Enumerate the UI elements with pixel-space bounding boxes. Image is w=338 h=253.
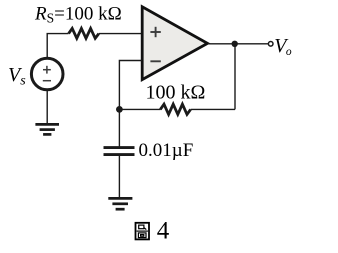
capacitor C1 plates [104, 148, 135, 155]
wire: riser up to output node [234, 44, 236, 110]
open terminal circle Vo [268, 42, 273, 47]
op-amp minus input symbol [150, 60, 160, 62]
resistor 100k feedback zigzag [160, 104, 190, 114]
svg-text:0.01µF: 0.01µF [139, 140, 194, 161]
svg-text:Vo: Vo [274, 35, 292, 58]
wire: minus input to feedback node [119, 61, 142, 110]
junction node at output [232, 41, 238, 47]
plus sign in source [43, 66, 51, 74]
ground under capacitor [108, 198, 132, 209]
op-amp U1 triangle [142, 7, 207, 80]
op-amp plus input symbol [150, 27, 160, 37]
svg-text:RS=100 kΩ: RS=100 kΩ [34, 3, 122, 25]
minus sign in source [43, 80, 51, 82]
svg-text:Vs: Vs [8, 64, 26, 89]
wire: feedback resistor to output riser [191, 108, 235, 110]
voltage source Vs circle [31, 58, 63, 90]
junction node at feedback [116, 106, 123, 113]
wire: feedback node down to capacitor [118, 109, 120, 146]
caption glyph: Chinese character Tu (figure) drawn as paths [136, 223, 150, 240]
ground under source [35, 124, 59, 134]
wire: source top corner to resistor [47, 34, 68, 58]
resistor R_S zigzag [69, 28, 99, 38]
wire: capacitor to ground [118, 156, 120, 198]
svg-text:100 kΩ: 100 kΩ [146, 81, 206, 103]
wire: resistor to op-amp + input [99, 33, 142, 35]
wire: source bottom to ground [46, 90, 48, 124]
svg-text:4: 4 [157, 218, 170, 245]
wire: op-amp output to terminal [208, 43, 269, 45]
wire: feedback node to feedback resistor [119, 108, 160, 110]
